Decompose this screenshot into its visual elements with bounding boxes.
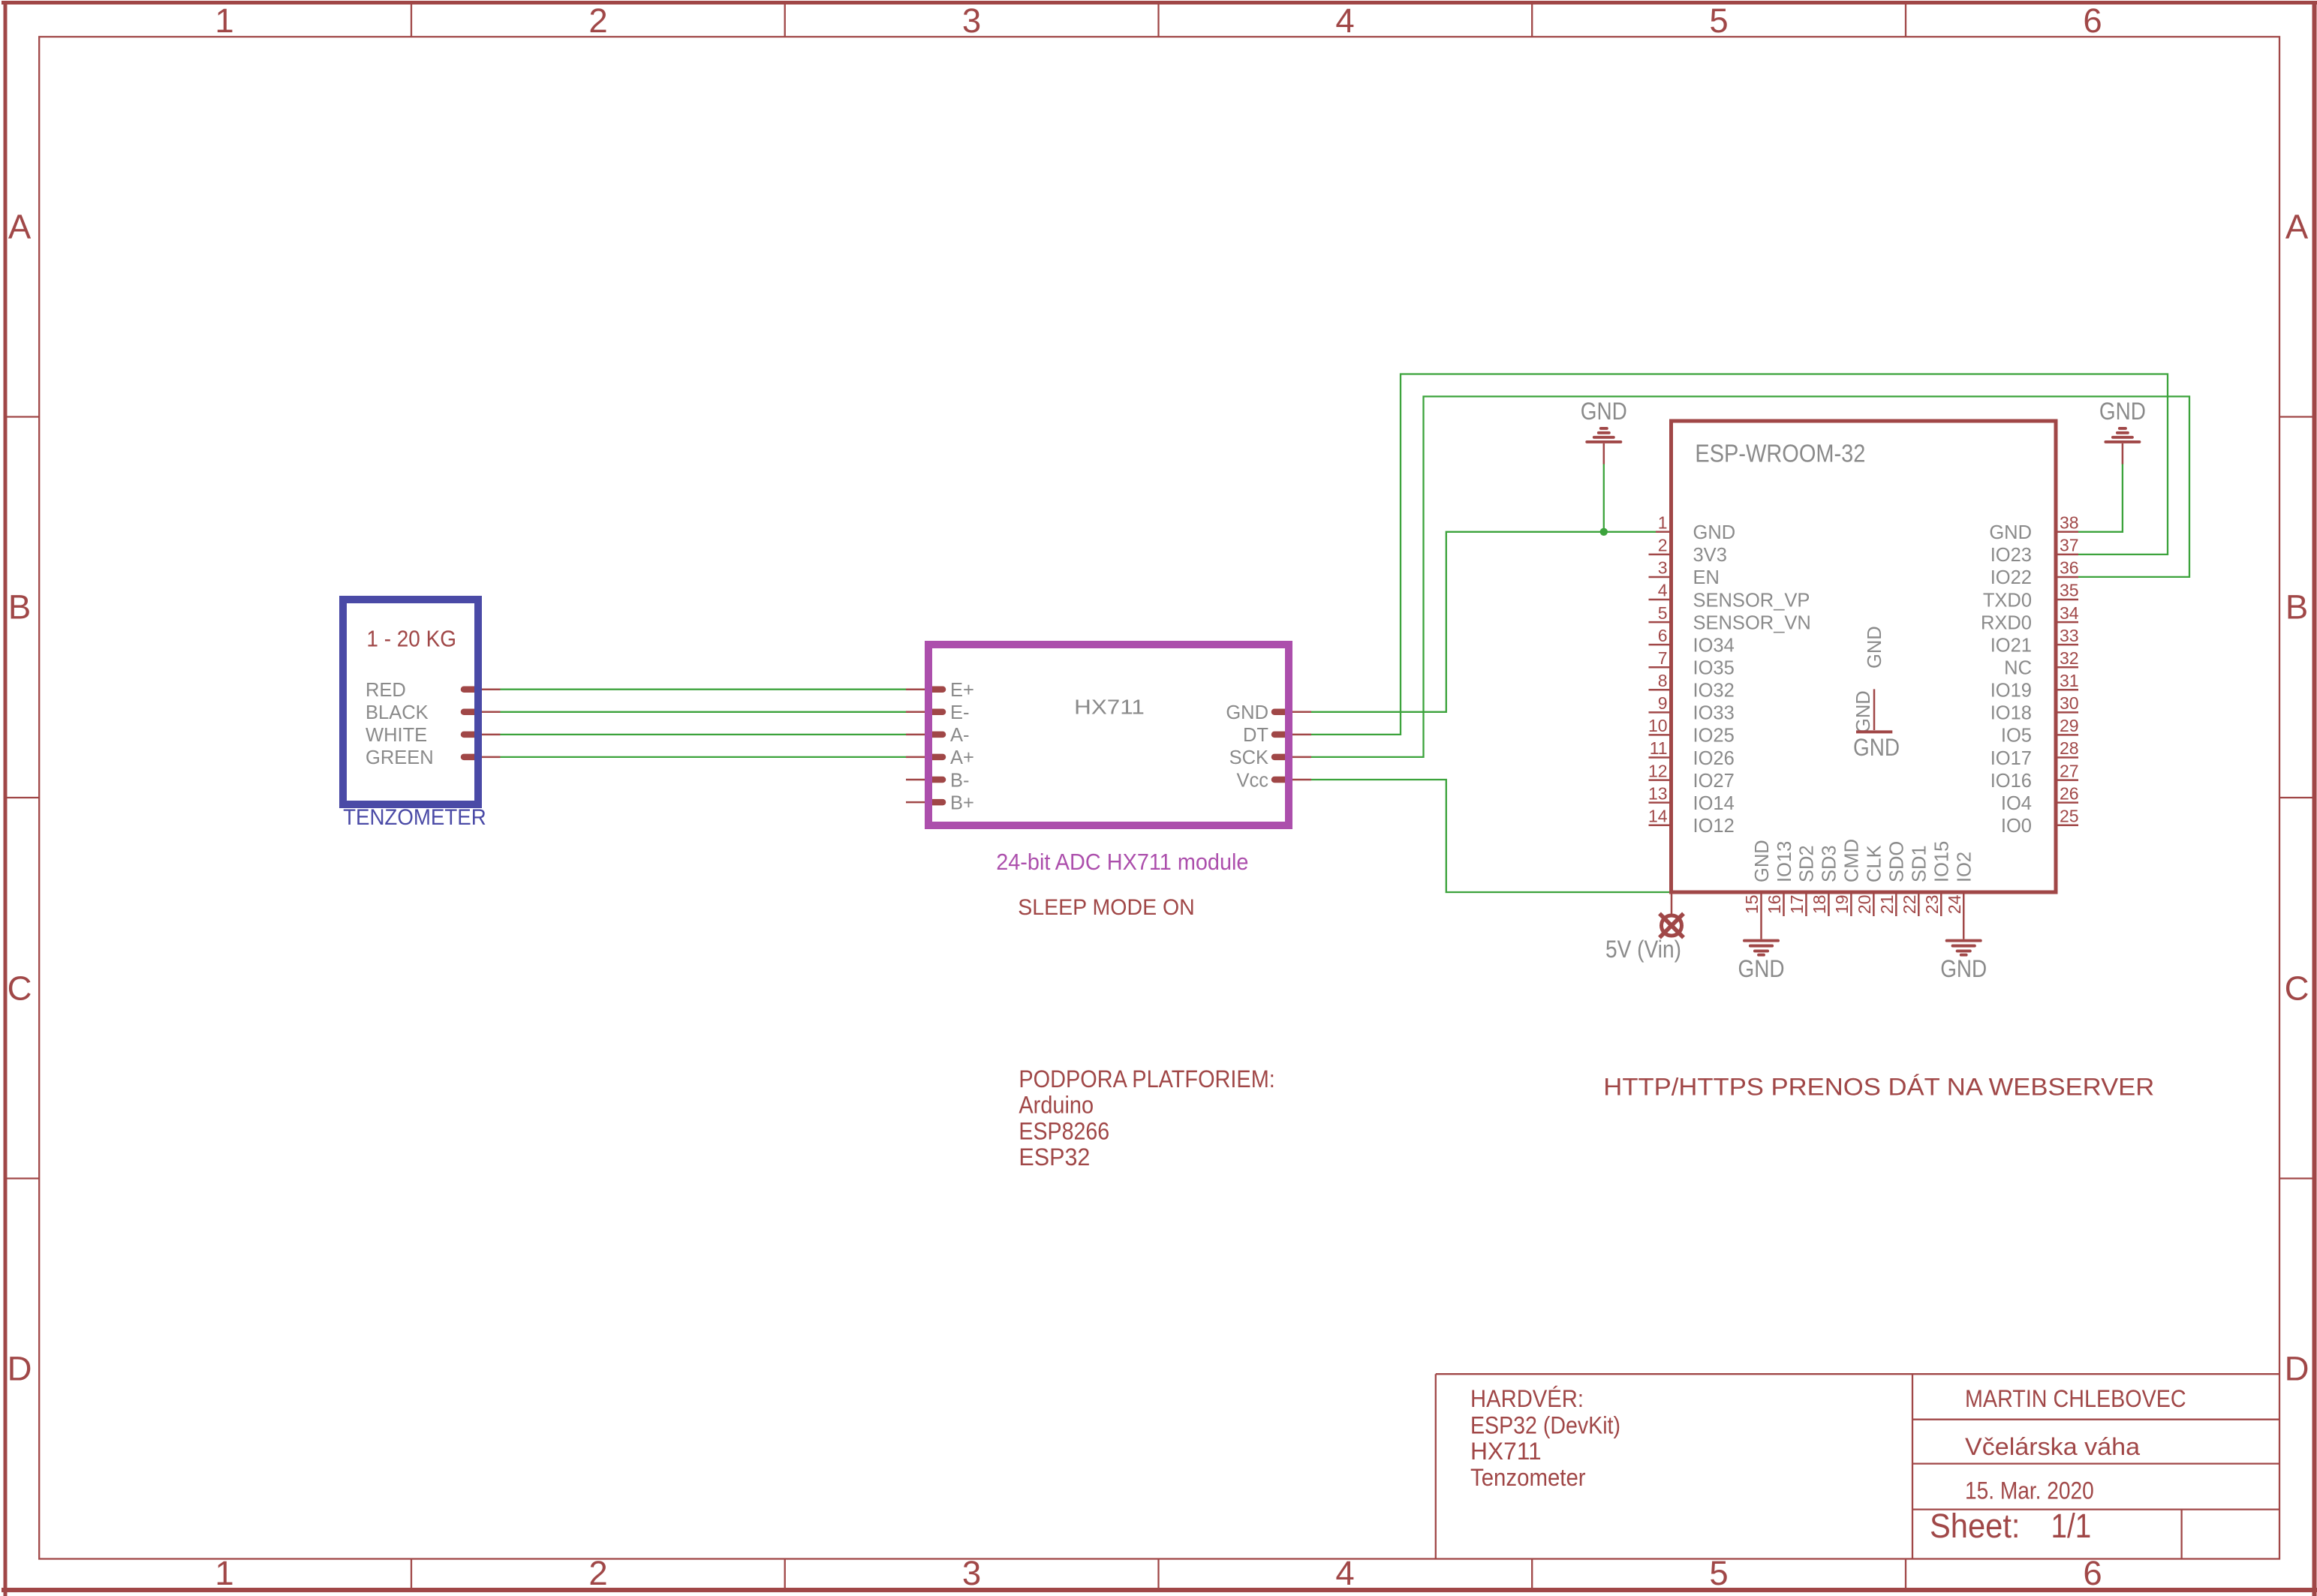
svg-text:IO21: IO21 bbox=[1991, 635, 2032, 656]
svg-text:IO2: IO2 bbox=[1954, 852, 1975, 882]
svg-text:1: 1 bbox=[1658, 513, 1668, 533]
svg-text:SCK: SCK bbox=[1229, 747, 1268, 768]
svg-text:36: 36 bbox=[2060, 558, 2079, 578]
svg-text:ESP32 (DevKit): ESP32 (DevKit) bbox=[1470, 1412, 1620, 1439]
svg-text:5: 5 bbox=[1709, 1554, 1728, 1592]
svg-text:HX711: HX711 bbox=[1074, 696, 1145, 719]
svg-text:D: D bbox=[8, 1349, 32, 1387]
svg-text:34: 34 bbox=[2060, 603, 2079, 623]
svg-text:35: 35 bbox=[2060, 581, 2079, 600]
svg-text:EN: EN bbox=[1693, 567, 1720, 588]
svg-text:5: 5 bbox=[1658, 603, 1668, 623]
svg-text:SLEEP MODE ON: SLEEP MODE ON bbox=[1018, 895, 1195, 920]
svg-text:4: 4 bbox=[1658, 581, 1668, 600]
svg-text:IO0: IO0 bbox=[2001, 816, 2032, 837]
svg-text:SD2: SD2 bbox=[1797, 845, 1818, 882]
svg-text:30: 30 bbox=[2060, 693, 2079, 713]
svg-text:GND: GND bbox=[1226, 702, 1268, 723]
svg-text:IO14: IO14 bbox=[1693, 793, 1735, 814]
svg-text:4: 4 bbox=[1335, 2, 1354, 40]
svg-text:A: A bbox=[8, 207, 32, 245]
svg-text:ESP8266: ESP8266 bbox=[1019, 1117, 1109, 1144]
svg-text:IO25: IO25 bbox=[1693, 726, 1735, 747]
svg-text:13: 13 bbox=[1648, 783, 1668, 803]
svg-text:GND: GND bbox=[1581, 398, 1627, 425]
svg-text:14: 14 bbox=[1648, 806, 1668, 825]
svg-text:B-: B- bbox=[950, 770, 970, 791]
svg-text:3: 3 bbox=[962, 1554, 981, 1592]
svg-text:2: 2 bbox=[588, 1554, 607, 1592]
svg-text:24: 24 bbox=[1945, 894, 1964, 914]
svg-text:B+: B+ bbox=[950, 792, 974, 813]
svg-text:IO17: IO17 bbox=[1991, 748, 2032, 769]
svg-text:C: C bbox=[8, 969, 32, 1007]
svg-text:16: 16 bbox=[1765, 895, 1784, 915]
svg-text:26: 26 bbox=[2060, 783, 2079, 803]
svg-text:IO13: IO13 bbox=[1774, 841, 1795, 882]
svg-text:B: B bbox=[8, 588, 31, 626]
svg-text:B: B bbox=[2285, 588, 2308, 626]
svg-text:3: 3 bbox=[1658, 558, 1668, 578]
svg-text:CMD: CMD bbox=[1842, 839, 1863, 882]
svg-text:1: 1 bbox=[215, 2, 233, 40]
svg-text:2: 2 bbox=[588, 2, 607, 40]
svg-text:TXD0: TXD0 bbox=[1983, 590, 2032, 611]
svg-text:25: 25 bbox=[2060, 806, 2079, 825]
svg-text:IO16: IO16 bbox=[1991, 771, 2032, 792]
svg-text:ESP32: ESP32 bbox=[1019, 1144, 1090, 1171]
svg-text:IO32: IO32 bbox=[1693, 681, 1735, 702]
svg-text:5V (Vin): 5V (Vin) bbox=[1605, 936, 1681, 963]
svg-text:GND: GND bbox=[1693, 522, 1736, 543]
svg-text:6: 6 bbox=[2083, 1554, 2102, 1592]
svg-text:Sheet:: Sheet: bbox=[1930, 1507, 2021, 1545]
svg-text:Tenzometer: Tenzometer bbox=[1470, 1464, 1586, 1491]
svg-text:32: 32 bbox=[2060, 648, 2079, 668]
svg-text:1 - 20 KG: 1 - 20 KG bbox=[366, 626, 456, 652]
svg-text:WHITE: WHITE bbox=[366, 725, 427, 746]
svg-text:IO19: IO19 bbox=[1991, 681, 2032, 702]
svg-text:IO35: IO35 bbox=[1693, 658, 1735, 679]
svg-text:PODPORA PLATFORIEM:: PODPORA PLATFORIEM: bbox=[1019, 1066, 1274, 1093]
svg-text:1: 1 bbox=[215, 1554, 233, 1592]
svg-text:SENSOR_VN: SENSOR_VN bbox=[1693, 612, 1811, 633]
svg-text:RED: RED bbox=[366, 680, 406, 701]
svg-text:4: 4 bbox=[1335, 1554, 1354, 1592]
svg-text:D: D bbox=[2285, 1349, 2309, 1387]
svg-text:6: 6 bbox=[2083, 2, 2102, 40]
svg-text:ESP-WROOM-32: ESP-WROOM-32 bbox=[1695, 440, 1865, 467]
svg-text:18: 18 bbox=[1810, 895, 1829, 915]
svg-text:MARTIN CHLEBOVEC: MARTIN CHLEBOVEC bbox=[1965, 1385, 2186, 1412]
svg-text:15. Mar. 2020: 15. Mar. 2020 bbox=[1965, 1477, 2094, 1504]
svg-text:HARDVÉR:: HARDVÉR: bbox=[1470, 1385, 1584, 1412]
svg-text:GND: GND bbox=[1989, 522, 2032, 543]
svg-text:BLACK: BLACK bbox=[366, 702, 429, 723]
svg-text:RXD0: RXD0 bbox=[1981, 612, 2032, 633]
svg-text:17: 17 bbox=[1787, 895, 1807, 915]
svg-text:IO33: IO33 bbox=[1693, 703, 1735, 724]
svg-text:GND: GND bbox=[1853, 690, 1874, 733]
svg-text:IO12: IO12 bbox=[1693, 816, 1735, 837]
svg-text:IO26: IO26 bbox=[1693, 748, 1735, 769]
svg-text:GND: GND bbox=[1752, 840, 1773, 882]
svg-text:GND: GND bbox=[1940, 955, 1987, 982]
svg-text:IO5: IO5 bbox=[2001, 726, 2032, 747]
svg-text:31: 31 bbox=[2060, 671, 2079, 690]
svg-text:21: 21 bbox=[1877, 895, 1897, 915]
svg-text:IO15: IO15 bbox=[1932, 841, 1953, 882]
svg-text:22: 22 bbox=[1900, 895, 1919, 915]
svg-text:SD1: SD1 bbox=[1909, 845, 1930, 882]
svg-text:1/1: 1/1 bbox=[2051, 1507, 2092, 1545]
svg-text:37: 37 bbox=[2060, 536, 2079, 555]
svg-text:IO18: IO18 bbox=[1991, 703, 2032, 724]
svg-text:GND: GND bbox=[1864, 626, 1885, 669]
svg-text:SDO: SDO bbox=[1887, 841, 1908, 882]
svg-text:27: 27 bbox=[2060, 761, 2079, 780]
svg-text:28: 28 bbox=[2060, 738, 2079, 758]
svg-text:GREEN: GREEN bbox=[366, 747, 434, 768]
svg-text:E+: E+ bbox=[950, 680, 974, 701]
svg-text:DT: DT bbox=[1243, 725, 1268, 746]
svg-text:Vcc: Vcc bbox=[1236, 770, 1268, 791]
svg-text:24-bit ADC HX711 module: 24-bit ADC HX711 module bbox=[996, 849, 1248, 875]
svg-text:11: 11 bbox=[1650, 738, 1668, 758]
svg-text:Arduino: Arduino bbox=[1019, 1092, 1094, 1119]
svg-text:15: 15 bbox=[1742, 895, 1762, 915]
svg-text:E-: E- bbox=[950, 702, 970, 723]
svg-text:GND: GND bbox=[2099, 398, 2146, 425]
svg-text:38: 38 bbox=[2060, 513, 2079, 533]
svg-text:A+: A+ bbox=[950, 747, 974, 768]
svg-text:7: 7 bbox=[1658, 648, 1668, 668]
svg-text:20: 20 bbox=[1855, 895, 1874, 915]
svg-text:IO27: IO27 bbox=[1693, 771, 1735, 792]
svg-text:3: 3 bbox=[962, 2, 981, 40]
svg-text:HTTP/HTTPS PRENOS DÁT NA WEBSE: HTTP/HTTPS PRENOS DÁT NA WEBSERVER bbox=[1603, 1073, 2154, 1100]
svg-text:10: 10 bbox=[1648, 716, 1668, 735]
svg-text:TENZOMETER: TENZOMETER bbox=[343, 805, 486, 830]
svg-text:8: 8 bbox=[1658, 671, 1668, 690]
svg-text:A-: A- bbox=[950, 725, 970, 746]
svg-text:SD3: SD3 bbox=[1819, 845, 1840, 882]
svg-text:23: 23 bbox=[1922, 895, 1942, 915]
svg-text:2: 2 bbox=[1658, 536, 1668, 555]
svg-text:HX711: HX711 bbox=[1470, 1438, 1542, 1465]
svg-text:IO23: IO23 bbox=[1991, 545, 2032, 566]
svg-text:12: 12 bbox=[1648, 761, 1668, 780]
svg-text:33: 33 bbox=[2060, 626, 2079, 645]
svg-text:NC: NC bbox=[2004, 658, 2032, 679]
svg-text:9: 9 bbox=[1658, 693, 1668, 713]
svg-text:5: 5 bbox=[1709, 2, 1728, 40]
svg-text:IO4: IO4 bbox=[2001, 793, 2032, 814]
svg-text:Včelárska váha: Včelárska váha bbox=[1965, 1433, 2140, 1460]
svg-text:6: 6 bbox=[1658, 626, 1668, 645]
svg-text:IO22: IO22 bbox=[1991, 567, 2032, 588]
svg-text:19: 19 bbox=[1832, 895, 1852, 915]
svg-text:C: C bbox=[2285, 969, 2309, 1007]
svg-text:SENSOR_VP: SENSOR_VP bbox=[1693, 590, 1810, 611]
svg-text:GND: GND bbox=[1738, 955, 1785, 982]
svg-text:29: 29 bbox=[2060, 716, 2079, 735]
svg-text:3V3: 3V3 bbox=[1693, 545, 1727, 566]
svg-text:IO34: IO34 bbox=[1693, 635, 1735, 656]
svg-text:GND: GND bbox=[1853, 734, 1900, 761]
svg-text:A: A bbox=[2285, 207, 2309, 245]
svg-text:CLK: CLK bbox=[1864, 845, 1885, 882]
